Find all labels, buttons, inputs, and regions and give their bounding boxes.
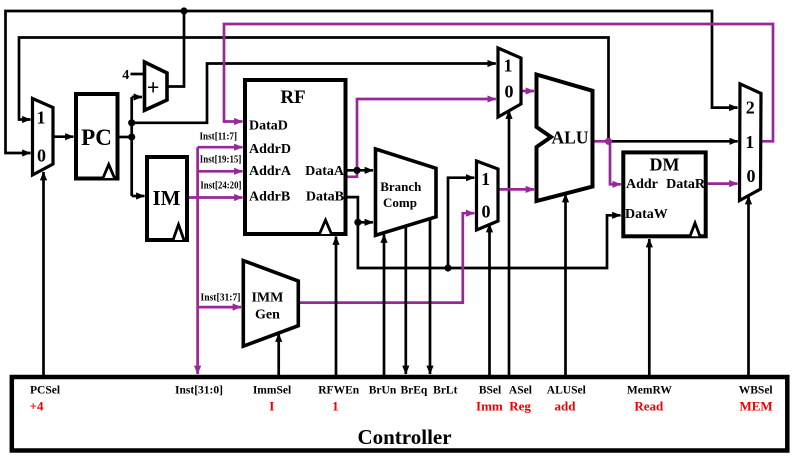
junction ALU output — [605, 138, 612, 145]
register PC — [76, 94, 118, 179]
svg-text:PC: PC — [81, 125, 112, 150]
wire PC to +4 adder input — [132, 96, 142, 99]
wire IMM Gen output to BSel mux input 0 — [298, 213, 474, 302]
svg-text:Controller: Controller — [357, 425, 451, 449]
wire BrLt output to controller — [429, 219, 432, 374]
junction DataB — [354, 219, 361, 226]
svg-text:0: 0 — [482, 202, 491, 222]
svg-text:MemRW: MemRW — [627, 385, 672, 397]
svg-text:RF: RF — [280, 87, 305, 108]
junction DataB to BSel — [444, 264, 451, 271]
svg-text:Inst[24:20]: Inst[24:20] — [200, 180, 241, 191]
svg-text:DM: DM — [650, 155, 680, 175]
wire WB mux output loop to RF DataD — [224, 24, 773, 141]
svg-text:Gen: Gen — [255, 307, 280, 322]
svg-text:0: 0 — [505, 82, 514, 102]
wire RFWEn control — [335, 237, 338, 376]
svg-text:Inst[11:7]: Inst[11:7] — [200, 132, 238, 143]
svg-text:WBSel: WBSel — [739, 385, 773, 397]
svg-text:AddrD: AddrD — [249, 142, 291, 157]
junction DataA — [353, 167, 360, 174]
clock triangle PC — [103, 165, 115, 179]
junction adder output on top rail — [180, 7, 187, 14]
wire RF DataA to Branch Comp — [348, 169, 374, 172]
wire adder output up to top rail — [168, 13, 185, 87]
svg-text:0: 0 — [747, 166, 756, 186]
svg-text:AddrA: AddrA — [249, 164, 292, 179]
wire DataB up to BSel mux input 1 — [448, 178, 474, 268]
wire BSel mux output to ALU — [498, 188, 534, 191]
svg-text:ALU: ALU — [552, 128, 589, 148]
wire ALU output to WB mux input 1 — [609, 140, 738, 143]
svg-text:+: + — [147, 74, 160, 99]
svg-text:Imm: Imm — [476, 399, 503, 414]
clock triangle IM — [173, 225, 184, 241]
svg-text:Addr: Addr — [626, 177, 658, 192]
junction PC output — [128, 133, 135, 140]
wire Inst bus vertical Inst[31:0] to controller — [196, 147, 199, 374]
svg-text:1: 1 — [481, 169, 490, 189]
mux PCSel — [33, 99, 54, 176]
svg-text:1: 1 — [332, 399, 339, 414]
svg-text:BrEq: BrEq — [400, 385, 427, 397]
svg-text:1: 1 — [37, 108, 46, 128]
svg-text:DataD: DataD — [249, 119, 288, 134]
svg-text:BrUn: BrUn — [369, 385, 397, 397]
svg-text:DataA: DataA — [305, 164, 345, 179]
wire PC to IM input — [132, 195, 145, 198]
wire constant 4 to adder — [131, 73, 145, 76]
register file RF — [245, 80, 346, 234]
wire RF DataA purple to ASel mux input 0 — [348, 99, 496, 177]
wire PC net vertical — [130, 97, 133, 196]
svg-text:IMM: IMM — [251, 291, 283, 306]
wire ImmSel control — [277, 334, 280, 376]
wire ALU result feedback to PCSel mux input 1 — [19, 38, 609, 142]
svg-text:BrLt: BrLt — [433, 385, 457, 397]
wire DataB to Branch Comp lower input — [358, 221, 373, 224]
wire ASel control — [508, 111, 511, 376]
wire PC output to junction — [120, 136, 132, 139]
svg-text:2: 2 — [746, 98, 755, 118]
svg-text:IM: IM — [153, 186, 181, 210]
junction PC net upper — [128, 119, 135, 126]
svg-text:1: 1 — [504, 56, 513, 76]
svg-text:ASel: ASel — [509, 385, 532, 397]
branch comparator — [376, 149, 437, 235]
svg-text:PCSel: PCSel — [30, 385, 60, 397]
svg-text:Read: Read — [634, 399, 664, 414]
mux WBSel — [740, 84, 762, 201]
controller box — [12, 377, 788, 451]
svg-text:Comp: Comp — [383, 195, 417, 210]
wire RF DataB net — [348, 197, 621, 268]
wire BrEq output to controller — [404, 226, 407, 374]
svg-text:0: 0 — [37, 146, 46, 166]
svg-text:Branch: Branch — [380, 179, 422, 194]
wire DM DataR to WB mux input 0 — [708, 182, 738, 185]
svg-text:MEM: MEM — [739, 399, 772, 414]
wire PCSel control — [42, 172, 45, 375]
wire ASel mux output to ALU — [521, 90, 534, 93]
wire Inst[19:15] to RF AddrA — [198, 170, 243, 173]
wire BSel control — [488, 224, 491, 375]
op-amp-shaped ALU — [537, 75, 593, 202]
svg-text:4: 4 — [122, 68, 129, 83]
clock triangle DM — [690, 223, 700, 236]
wire MemRW control — [648, 239, 651, 375]
memory IM — [147, 157, 187, 240]
svg-text:Reg: Reg — [509, 399, 531, 414]
wire PC to ASel mux input 1 — [132, 64, 496, 123]
wire ALUSel control — [564, 194, 567, 375]
mux ASel — [498, 48, 521, 117]
mux BSel — [477, 161, 499, 230]
wire ALU output purple stub — [593, 140, 609, 143]
svg-text:Inst[31:7]: Inst[31:7] — [201, 292, 241, 303]
svg-text:BSel: BSel — [479, 385, 501, 397]
adder +4 — [145, 62, 168, 110]
svg-text:DataW: DataW — [625, 207, 668, 222]
svg-text:+4: +4 — [30, 399, 44, 414]
clock triangle RF — [320, 220, 332, 234]
memory DM — [623, 152, 706, 236]
svg-text:ALUSel: ALUSel — [547, 385, 586, 397]
svg-text:1: 1 — [745, 132, 754, 152]
svg-text:DataB: DataB — [306, 190, 344, 205]
wire ALU result to DM Addr — [610, 141, 621, 184]
wire PCSel mux output to PC — [54, 135, 74, 138]
svg-text:AddrB: AddrB — [249, 190, 290, 205]
svg-text:DataR: DataR — [666, 177, 706, 192]
imm gen — [243, 261, 298, 347]
svg-text:Inst[31:0]: Inst[31:0] — [175, 385, 223, 397]
wire PC+4 to WB mux input 2 — [184, 11, 738, 108]
svg-text:add: add — [555, 399, 577, 414]
wire IM output to RF AddrB — [189, 196, 243, 199]
svg-text:RFWEn: RFWEn — [318, 385, 360, 397]
wire Inst[11:7] to RF AddrD — [198, 146, 243, 149]
wire Inst[31:7] to IMM Gen — [198, 306, 241, 309]
wire WBSel control — [747, 196, 750, 375]
wire PC+4 feedback: adder output along top to PCSel mux input 0 — [6, 11, 185, 153]
svg-text:Inst[19:15]: Inst[19:15] — [200, 155, 242, 166]
svg-text:ImmSel: ImmSel — [253, 385, 291, 397]
svg-text:I: I — [269, 399, 274, 414]
wire BrUn control — [383, 235, 386, 376]
